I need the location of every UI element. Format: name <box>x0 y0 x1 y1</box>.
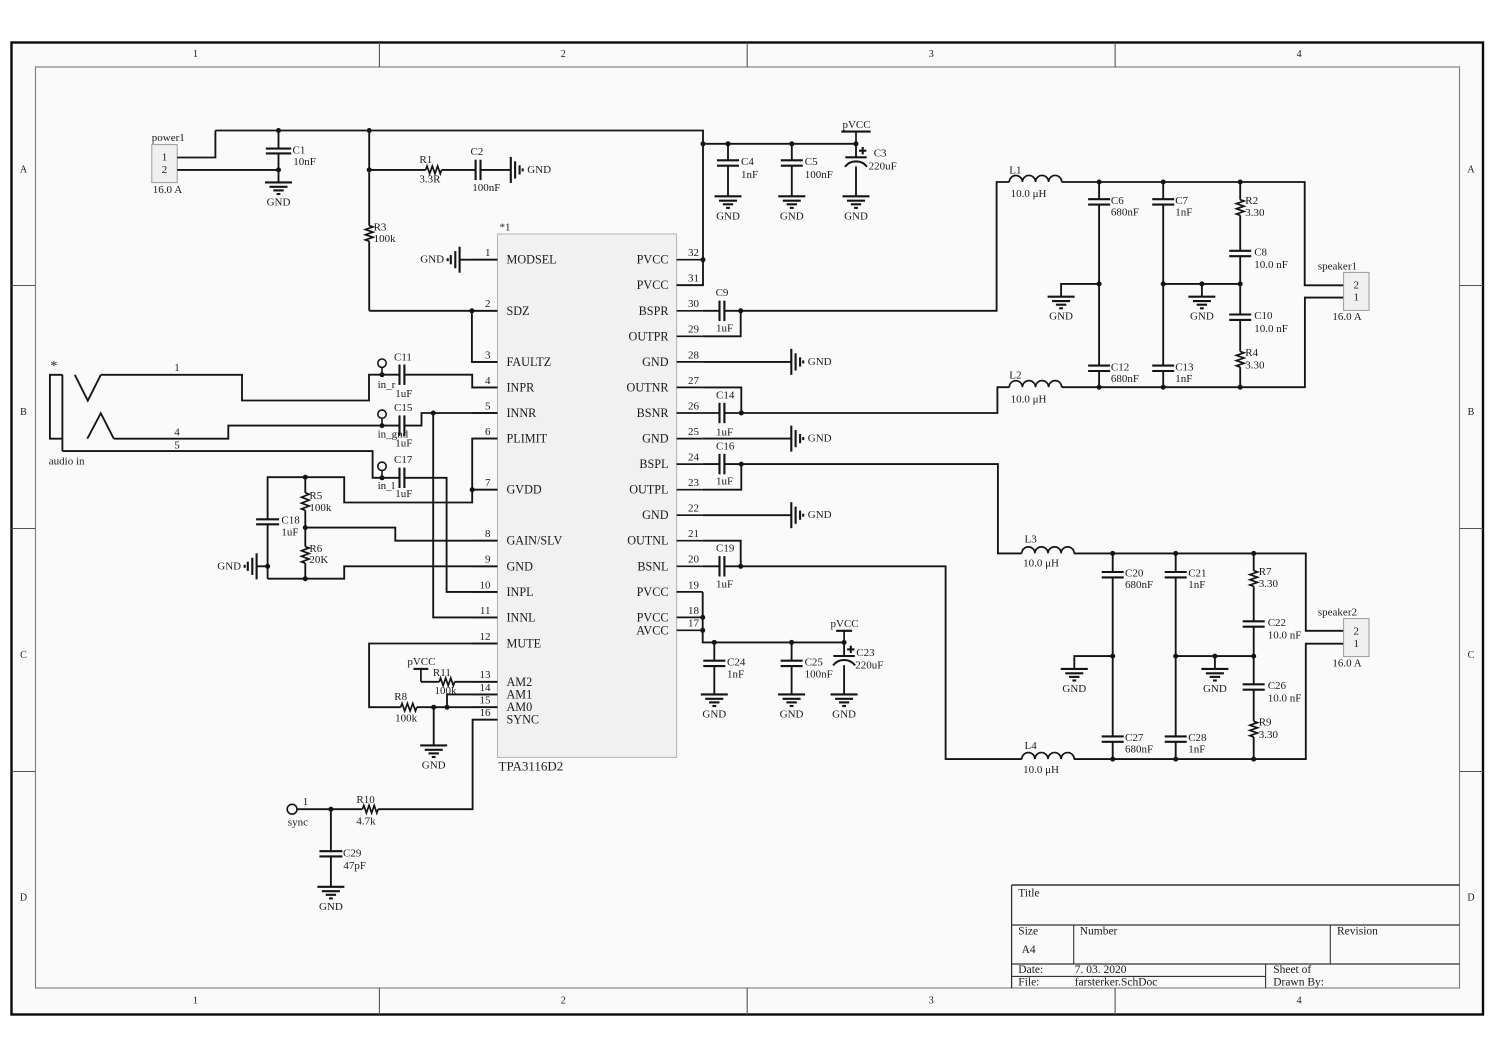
wire jack tip to C11 <box>101 375 400 401</box>
resistor R5 <box>304 477 306 493</box>
resistor R10 <box>363 805 379 813</box>
svg-text:L3: L3 <box>1025 534 1038 546</box>
ground at pin28 <box>703 361 792 363</box>
pin 6 PLIMIT <box>472 438 498 440</box>
svg-text:GND: GND <box>808 509 832 521</box>
svg-text:Title: Title <box>1018 888 1039 900</box>
inductor L4 <box>1022 753 1074 760</box>
wire ground tap ch2 <box>1214 656 1216 669</box>
svg-text:R11: R11 <box>433 667 451 679</box>
pin 30 BSPR <box>677 310 703 312</box>
capacitor C3 electrolytic <box>855 144 857 158</box>
svg-text:Drawn By:: Drawn By: <box>1273 976 1324 988</box>
svg-text:Size: Size <box>1018 926 1038 938</box>
svg-text:GND: GND <box>642 355 669 369</box>
svg-text:100nF: 100nF <box>805 169 833 181</box>
pin 13 AM2 <box>472 681 498 683</box>
pin 1 MODSEL <box>472 259 498 261</box>
ground at pin25 <box>703 438 792 440</box>
svg-text:R4: R4 <box>1245 347 1258 359</box>
svg-text:L4: L4 <box>1025 740 1038 752</box>
no-connect marker C17 <box>378 462 386 470</box>
svg-text:10nF: 10nF <box>293 156 316 168</box>
svg-text:1uF: 1uF <box>716 426 733 438</box>
capacitor C2 <box>475 160 477 180</box>
pin 31 PVCC <box>677 284 703 286</box>
wire SYNC to R10 <box>378 720 497 810</box>
node ground tap ch2 <box>1212 654 1217 659</box>
wire C2 to ground <box>481 169 511 171</box>
svg-text:100nF: 100nF <box>472 182 500 194</box>
wire BSNR to C14 <box>703 412 720 414</box>
pin 24 BSPL <box>677 463 703 465</box>
svg-text:INNL: INNL <box>507 610 536 624</box>
wire R1 to C2 <box>442 169 476 171</box>
capacitor C26 <box>1253 656 1255 684</box>
svg-text:C13: C13 <box>1175 361 1194 373</box>
svg-text:18: 18 <box>688 605 700 617</box>
wire C20 mid to ground <box>1074 656 1112 669</box>
node C6 top <box>1097 180 1102 185</box>
wire C21 mid to R7 column <box>1176 655 1254 657</box>
wire INNR to INNL <box>433 413 497 617</box>
pin 21 OUTNL <box>677 540 703 542</box>
resistor R7 <box>1253 553 1255 570</box>
wire divider bottom to GND pin <box>268 566 498 578</box>
svg-text:GND: GND <box>1190 311 1214 323</box>
svg-text:29: 29 <box>688 324 700 336</box>
svg-text:A4: A4 <box>1022 944 1036 956</box>
connector speaker1 <box>1344 272 1369 310</box>
node C1 bottom junction <box>276 167 281 172</box>
zone divider <box>12 771 36 773</box>
svg-text:OUTNL: OUTNL <box>627 534 668 548</box>
svg-text:30: 30 <box>688 298 700 310</box>
node C7 mid junction <box>1161 281 1166 286</box>
svg-text:OUTNR: OUTNR <box>627 380 670 394</box>
svg-text:TPA3116D2: TPA3116D2 <box>499 759 564 774</box>
wire C7 mid to R2 column <box>1163 283 1240 285</box>
ground below C4 <box>715 195 742 197</box>
svg-text:C27: C27 <box>1125 732 1144 744</box>
svg-text:16.0 A: 16.0 A <box>153 184 182 196</box>
svg-text:GND: GND <box>319 901 343 913</box>
node C15 left junction <box>380 423 385 428</box>
svg-text:1: 1 <box>162 152 168 164</box>
node R5 top junction <box>303 475 308 480</box>
svg-text:1uF: 1uF <box>395 488 412 500</box>
resistor R2 <box>1239 182 1241 200</box>
zone divider <box>12 285 36 287</box>
svg-text:C7: C7 <box>1175 195 1188 207</box>
pin 29 OUTPR <box>677 335 703 337</box>
capacitor C19 <box>718 556 720 576</box>
svg-text:D: D <box>20 893 27 904</box>
ground below C5 <box>778 195 805 197</box>
ground right filter ch1 <box>1188 296 1215 298</box>
wire BSPR to C9 <box>703 310 720 312</box>
svg-text:2: 2 <box>561 49 566 60</box>
svg-text:A: A <box>1467 165 1475 176</box>
node C6 mid junction <box>1097 281 1102 286</box>
pin 18 PVCC <box>677 616 703 618</box>
node C7 top <box>1161 180 1166 185</box>
svg-text:14: 14 <box>480 682 492 694</box>
capacitor C21 <box>1175 553 1177 572</box>
svg-text:16: 16 <box>480 707 492 719</box>
svg-text:PLIMIT: PLIMIT <box>507 432 548 446</box>
svg-text:SYNC: SYNC <box>507 713 540 727</box>
node R9 bottom junction <box>1251 757 1256 762</box>
svg-text:3.30: 3.30 <box>1245 207 1265 219</box>
capacitor C4 <box>727 144 729 161</box>
svg-text:R1: R1 <box>419 154 432 166</box>
svg-text:GND: GND <box>1049 311 1073 323</box>
ground left filter ch1 <box>1048 296 1075 298</box>
ground below C3 <box>843 195 870 197</box>
svg-text:MUTE: MUTE <box>507 637 542 651</box>
svg-text:audio in: audio in <box>49 456 85 468</box>
pin 4 INPR <box>472 386 498 388</box>
node R5-R6 junction <box>303 525 308 530</box>
wire OUTNL to L4 <box>724 566 1021 759</box>
svg-text:R8: R8 <box>394 691 407 703</box>
svg-text:GND: GND <box>780 708 804 720</box>
inductor L3 <box>1022 547 1074 554</box>
wire power1 pin1 to VCC rail <box>177 131 215 158</box>
node AM1 junction <box>445 705 450 710</box>
ground below C24 <box>701 693 728 695</box>
pin 2 SDZ <box>472 310 498 312</box>
svg-text:L2: L2 <box>1009 370 1021 382</box>
ground below C23 <box>831 693 858 695</box>
svg-text:R7: R7 <box>1259 566 1272 578</box>
node C12 bottom junction <box>1097 385 1102 390</box>
node C17 left junction <box>380 475 385 480</box>
wire pVCC to R11 <box>421 681 439 683</box>
wire L1 output rail <box>1062 182 1344 285</box>
svg-text:GND: GND <box>844 210 868 222</box>
svg-text:2: 2 <box>561 996 566 1007</box>
capacitor C20 <box>1112 553 1114 572</box>
ground left filter ch2 <box>1061 668 1088 670</box>
capacitor C8 <box>1229 250 1251 252</box>
svg-text:pVCC: pVCC <box>407 656 435 668</box>
ground at pin22 <box>703 514 792 516</box>
capacitor C25 <box>791 642 793 660</box>
node OUTNL junction <box>738 564 743 569</box>
svg-text:12: 12 <box>480 631 491 643</box>
resistor R9 <box>1250 721 1258 737</box>
node C18 ground junction <box>265 564 270 569</box>
capacitor C5 <box>791 144 793 161</box>
capacitor C14 <box>718 403 720 423</box>
svg-text:10.0 μH: 10.0 μH <box>1023 558 1059 570</box>
pin 5 INNR <box>472 412 498 414</box>
capacitor C12 <box>1098 284 1100 366</box>
wire OUTNL loop <box>703 541 741 567</box>
svg-text:3.30: 3.30 <box>1245 359 1265 371</box>
wire R3 node to R1 <box>369 169 426 171</box>
wire MUTE loop <box>369 644 497 708</box>
svg-text:3: 3 <box>485 349 491 361</box>
svg-text:1: 1 <box>193 49 198 60</box>
wire R10 to sync port <box>297 808 363 810</box>
node C23 top <box>842 640 847 645</box>
capacitor C28 <box>1175 656 1177 736</box>
svg-text:C25: C25 <box>805 656 824 668</box>
svg-text:1uF: 1uF <box>395 388 412 400</box>
svg-text:4: 4 <box>485 375 491 387</box>
svg-text:3: 3 <box>929 996 934 1007</box>
svg-text:100k: 100k <box>309 502 332 514</box>
svg-text:8: 8 <box>485 528 491 540</box>
svg-text:1: 1 <box>303 796 309 808</box>
zone divider <box>1114 43 1116 68</box>
svg-text:4.7k: 4.7k <box>356 815 376 827</box>
sync port marker <box>287 804 297 814</box>
svg-text:C24: C24 <box>727 656 746 668</box>
node C5 top <box>789 141 794 146</box>
svg-text:GND: GND <box>642 432 669 446</box>
svg-text:*: * <box>50 359 57 374</box>
svg-text:PVCC: PVCC <box>637 585 669 599</box>
node C21 mid junction <box>1173 654 1178 659</box>
svg-text:A: A <box>20 165 28 176</box>
svg-text:power1: power1 <box>152 132 185 144</box>
no-connect marker C11 <box>378 359 386 367</box>
wire PLIMIT loop <box>472 439 497 490</box>
svg-text:21: 21 <box>688 528 699 540</box>
wire AVCC rail <box>714 641 844 643</box>
node rail tap <box>701 141 706 146</box>
svg-text:10: 10 <box>480 579 492 591</box>
pin 26 BSNR <box>677 412 703 414</box>
svg-text:GAIN/SLV: GAIN/SLV <box>507 534 563 548</box>
svg-text:GND: GND <box>832 708 856 720</box>
wire BSNL to C19 <box>703 565 720 567</box>
svg-text:3.3R: 3.3R <box>419 174 441 186</box>
node R7 top <box>1251 551 1256 556</box>
svg-text:sync: sync <box>288 816 308 828</box>
pin 10 INPL <box>472 591 498 593</box>
svg-text:GND: GND <box>420 254 444 266</box>
svg-text:AVCC: AVCC <box>636 623 668 637</box>
svg-text:2: 2 <box>1354 279 1360 291</box>
node OUTNR junction <box>739 411 744 416</box>
svg-text:C20: C20 <box>1125 568 1144 580</box>
node R6 bottom junction <box>303 576 308 581</box>
node R7 column mid junction <box>1251 654 1256 659</box>
svg-text:pVCC: pVCC <box>831 618 859 630</box>
svg-text:2: 2 <box>485 298 491 310</box>
svg-text:1: 1 <box>193 996 198 1007</box>
svg-text:32: 32 <box>688 247 699 259</box>
node R8 ground junction <box>431 705 436 710</box>
wire AM1 down <box>447 694 498 707</box>
wire OUTNR loop <box>703 387 742 413</box>
svg-text:pVCC: pVCC <box>842 119 870 131</box>
inductor L2 <box>1009 381 1061 388</box>
pin 27 OUTNR <box>677 386 703 388</box>
svg-text:BSNL: BSNL <box>637 559 668 573</box>
node C20 top <box>1110 551 1115 556</box>
svg-text:16.0 A: 16.0 A <box>1332 311 1361 323</box>
pin 32 PVCC <box>677 259 703 261</box>
wire C6 mid to ground <box>1061 284 1099 297</box>
capacitor C18 <box>256 518 279 520</box>
svg-text:INNR: INNR <box>507 406 538 420</box>
svg-text:16.0 A: 16.0 A <box>1332 657 1361 669</box>
svg-text:R5: R5 <box>309 490 322 502</box>
node R2 column mid junction <box>1238 281 1243 286</box>
svg-text:23: 23 <box>688 477 700 489</box>
node INNR junction <box>431 411 436 416</box>
svg-text:OUTPR: OUTPR <box>629 329 670 343</box>
svg-text:farsterker.SchDoc: farsterker.SchDoc <box>1075 976 1158 988</box>
wire PVCC pins to decoupling <box>703 592 715 643</box>
capacitor C6 <box>1098 182 1100 199</box>
node C29 junction <box>328 807 333 812</box>
node pin18 junction <box>700 615 705 620</box>
svg-text:1nF: 1nF <box>1188 579 1205 591</box>
svg-text:1nF: 1nF <box>1175 207 1192 219</box>
svg-text:C2: C2 <box>471 146 484 158</box>
svg-text:C10: C10 <box>1254 310 1273 322</box>
svg-text:GND: GND <box>1203 683 1227 695</box>
svg-text:6: 6 <box>485 426 491 438</box>
svg-text:22: 22 <box>688 503 699 515</box>
resistor R6 <box>304 528 306 547</box>
capacitor C15 <box>398 415 400 435</box>
svg-text:26: 26 <box>688 400 700 412</box>
svg-text:4: 4 <box>174 426 180 438</box>
resistor R11 <box>439 678 454 686</box>
svg-text:10.0 nF: 10.0 nF <box>1268 629 1302 641</box>
node SDZ junction <box>469 308 474 313</box>
svg-text:2: 2 <box>1354 626 1360 638</box>
svg-text:B: B <box>1468 407 1475 418</box>
svg-text:C: C <box>1468 650 1475 661</box>
wire C15 to INNR <box>404 413 497 426</box>
svg-text:GND: GND <box>716 210 740 222</box>
wire OUTPL loop <box>703 464 742 490</box>
svg-text:C21: C21 <box>1188 568 1206 580</box>
svg-text:R10: R10 <box>356 794 375 806</box>
svg-text:100nF: 100nF <box>805 669 833 681</box>
svg-text:in_l: in_l <box>378 480 395 492</box>
wire L4 output rail <box>1074 644 1344 759</box>
svg-text:100k: 100k <box>435 685 458 697</box>
svg-text:10.0 μH: 10.0 μH <box>1023 764 1059 776</box>
wire jack ring to C15 <box>114 426 400 439</box>
node ground tap ch1 <box>1199 281 1204 286</box>
pin 23 OUTPL <box>677 489 703 491</box>
svg-text:GND: GND <box>780 210 804 222</box>
pin 8 GAIN/SLV <box>472 540 498 542</box>
zone divider <box>12 528 36 530</box>
svg-text:PVCC: PVCC <box>637 278 669 292</box>
svg-text:Number: Number <box>1080 926 1118 938</box>
capacitor C11 <box>398 365 400 385</box>
wire PVCC decoupling rail <box>703 143 856 145</box>
svg-text:24: 24 <box>688 452 700 464</box>
svg-text:GND: GND <box>808 433 832 445</box>
node R4 bottom junction <box>1238 385 1243 390</box>
node C4 top <box>726 141 731 146</box>
pin 25 GND <box>677 438 703 440</box>
pin 16 SYNC <box>472 719 498 721</box>
wire R3 to SDZ <box>369 310 497 312</box>
node C25 top <box>789 640 794 645</box>
svg-text:PVCC: PVCC <box>637 253 669 267</box>
svg-text:680nF: 680nF <box>1125 744 1153 756</box>
svg-text:5: 5 <box>485 400 491 412</box>
ground below C1 <box>278 170 280 183</box>
connector power1 <box>152 145 177 183</box>
svg-text:D: D <box>1467 893 1474 904</box>
svg-text:GND: GND <box>507 559 534 573</box>
svg-text:1nF: 1nF <box>741 169 758 181</box>
wire OUTPR to L1 <box>724 182 1009 311</box>
svg-text:680nF: 680nF <box>1111 207 1139 219</box>
svg-text:17: 17 <box>688 618 700 630</box>
svg-text:*1: *1 <box>500 222 511 234</box>
svg-text:20K: 20K <box>309 554 328 566</box>
svg-text:3: 3 <box>929 49 934 60</box>
capacitor C29 <box>330 809 332 851</box>
svg-text:4: 4 <box>1297 49 1302 60</box>
svg-text:1uF: 1uF <box>281 526 298 538</box>
svg-text:1: 1 <box>485 247 491 259</box>
svg-text:1uF: 1uF <box>395 438 412 450</box>
svg-text:GND: GND <box>642 508 669 522</box>
pin 3 FAULTZ <box>472 361 498 363</box>
wire ground to MODSEL <box>460 259 498 261</box>
svg-text:GND: GND <box>527 164 551 176</box>
connector speaker2 <box>1344 619 1369 657</box>
svg-text:OUTPL: OUTPL <box>629 483 668 497</box>
svg-text:C29: C29 <box>343 848 362 860</box>
ground at C18 <box>256 553 258 579</box>
svg-text:in_r: in_r <box>378 379 396 391</box>
svg-text:C9: C9 <box>716 287 729 299</box>
svg-text:100k: 100k <box>395 712 418 724</box>
svg-text:speaker2: speaker2 <box>1318 607 1357 619</box>
svg-text:1uF: 1uF <box>716 476 733 488</box>
svg-text:INPR: INPR <box>507 380 536 394</box>
svg-text:MODSEL: MODSEL <box>507 253 557 267</box>
title block grid <box>1012 884 1460 886</box>
svg-text:680nF: 680nF <box>1125 579 1153 591</box>
pin 28 GND <box>677 361 703 363</box>
node C3 top <box>854 141 859 146</box>
svg-text:100k: 100k <box>374 233 397 245</box>
wire VCC top rail <box>215 131 703 286</box>
svg-text:1uF: 1uF <box>716 578 733 590</box>
svg-text:1: 1 <box>1354 638 1360 650</box>
pin 20 BSNL <box>677 565 703 567</box>
wire OUTPL to L3 <box>724 464 1021 553</box>
svg-text:7: 7 <box>485 477 491 489</box>
svg-text:BSPL: BSPL <box>639 457 668 471</box>
svg-text:C28: C28 <box>1188 732 1207 744</box>
svg-text:GND: GND <box>217 560 241 572</box>
svg-text:FAULTZ: FAULTZ <box>507 355 552 369</box>
wire SDZ to FAULTZ <box>472 311 498 362</box>
node OUTPL junction <box>739 462 744 467</box>
svg-text:BSNR: BSNR <box>637 406 670 420</box>
